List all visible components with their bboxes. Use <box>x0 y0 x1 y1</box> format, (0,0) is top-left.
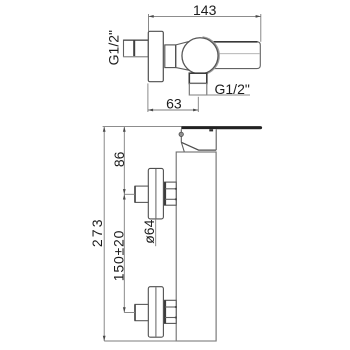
ball shading right edge <box>198 37 219 74</box>
fitting 2 escutcheon plate <box>148 287 163 338</box>
fitting 1 hex nut <box>165 182 177 205</box>
fitting 1 centre tick <box>124 193 135 195</box>
dimension 143 arrow right <box>256 15 261 18</box>
svg-text:143: 143 <box>193 2 217 18</box>
inlet nipple dark top edge <box>124 39 149 41</box>
dimension 86 arrow top <box>123 127 126 132</box>
svg-text:ø64: ø64 <box>141 219 157 243</box>
fitting 1 hex nut dividers <box>165 188 176 190</box>
dimension 63 arrow left <box>148 109 153 112</box>
dimension 143 arrow left <box>149 15 154 18</box>
spout cylinder seam line <box>213 53 260 55</box>
dimension 150+-20 line <box>123 194 125 312</box>
cartridge screw dot <box>179 132 183 136</box>
shower outlet upper box (top view) <box>189 73 207 83</box>
svg-text:G1/2": G1/2" <box>105 30 121 65</box>
dimension 86 line <box>123 127 125 195</box>
dimension 143 extension line left <box>148 14 150 31</box>
dimension 273 arrow top <box>103 127 106 132</box>
dimension 143 line <box>149 15 261 17</box>
svg-text:G1/2": G1/2" <box>215 81 250 97</box>
mixer body (side view) <box>176 152 216 341</box>
connector hub dark right edge <box>175 45 177 68</box>
fitting 2 escutcheon divider <box>155 287 157 337</box>
dimension 63 line <box>148 109 198 111</box>
fitting 2 hex nut dividers <box>165 306 176 308</box>
dimension 143 extension line right <box>260 14 262 42</box>
top extension line (side view) <box>103 126 182 128</box>
svg-text:86: 86 <box>111 151 127 167</box>
inlet nipple soft bottom shading <box>124 56 149 58</box>
diameter 64 leader line <box>155 219 157 246</box>
dimension 150+-20 arrow bottom <box>123 307 126 312</box>
fitting 2 supply stub dark left edge <box>134 304 136 320</box>
dimension 273 line <box>103 127 105 341</box>
cartridge housing fill (side view) <box>181 129 216 150</box>
inlet nipple (top view) <box>124 40 149 57</box>
dimension 63 arrow right <box>193 109 198 112</box>
dimension 63 extension line right <box>197 97 199 112</box>
dimension 86 arrow bottom <box>123 189 126 194</box>
ball transition trapezoid <box>176 41 190 70</box>
fitting 1 escutcheon plate <box>148 168 163 219</box>
fitting 2 supply stub <box>135 304 148 320</box>
svg-text:63: 63 <box>166 95 182 111</box>
fitting 2 centre tick <box>124 312 135 314</box>
fitting 1 hex nut dark left edge <box>164 182 166 205</box>
dimension 273 arrow bottom <box>103 336 106 341</box>
lever handle bar (side view) <box>181 126 262 129</box>
cartridge skirt slant edge <box>182 142 217 150</box>
cartridge left edge <box>181 129 184 152</box>
dimension 63 extension line left <box>147 83 149 112</box>
wall escutcheon plate (top view) <box>148 31 163 81</box>
inlet nipple divider <box>133 40 135 57</box>
mixer ball body (top view) <box>182 38 218 74</box>
lever pin notch <box>209 129 213 131</box>
spout cylinder dark top edge <box>206 41 258 43</box>
svg-text:273: 273 <box>89 217 105 247</box>
fitting 2 hex nut dark left edge <box>164 300 166 323</box>
connector hub (top view) <box>165 45 176 68</box>
svg-text:150±20: 150±20 <box>111 230 127 281</box>
G1/2" outlet label leader line <box>189 94 250 96</box>
fitting 1 junction shade blobs <box>175 188 177 190</box>
spout cylinder (top view) <box>206 42 260 69</box>
bottom extension line (side view) <box>104 340 216 342</box>
fitting 2 hex nut <box>165 300 177 323</box>
fitting 2 junction shade blobs <box>175 306 177 308</box>
fitting 1 escutcheon divider <box>155 169 157 219</box>
cartridge right edge <box>215 129 217 150</box>
fitting 1 supply stub <box>135 186 148 202</box>
dimension 150+-20 arrow top <box>123 194 126 199</box>
fitting 1 supply stub dark left edge <box>134 186 136 202</box>
shower outlet lower box (top view) <box>189 84 207 96</box>
